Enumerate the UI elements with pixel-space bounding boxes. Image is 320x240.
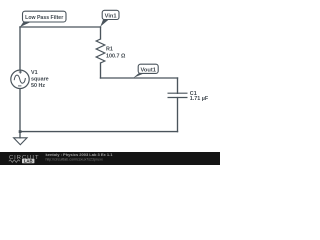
wire left vertical to source [19, 27, 21, 70]
capacitor C1 [168, 93, 188, 97]
watermark bar [0, 152, 220, 165]
label R1 value [106, 46, 126, 59]
wire Vin to resistor top [100, 27, 102, 39]
svg-text:Vin1: Vin1 [105, 13, 117, 19]
svg-text:Low Pass Filter: Low Pass Filter [25, 15, 63, 21]
wire bottom horizontal [20, 131, 178, 133]
ground [14, 138, 27, 145]
wire capacitor bottom lead [177, 98, 179, 132]
svg-text:Vout1: Vout1 [141, 67, 156, 73]
svg-text:1.71 µF: 1.71 µF [190, 96, 209, 102]
wire capacitor top lead [177, 78, 179, 93]
svg-text:R1: R1 [106, 46, 113, 52]
svg-text:V1: V1 [31, 70, 38, 76]
label V1 value [31, 70, 49, 89]
svg-text:100.7 Ω: 100.7 Ω [106, 54, 126, 60]
wire resistor bottom to corner [100, 63, 102, 78]
voltage source V1 [11, 70, 29, 88]
svg-text:50 Hz: 50 Hz [31, 83, 45, 89]
svg-text:LAB: LAB [24, 159, 33, 164]
wire top horizontal [20, 26, 101, 28]
svg-text:square: square [31, 77, 49, 83]
resistor R1 [96, 39, 105, 63]
wire Vout horizontal [101, 77, 178, 79]
svg-text:hllp://circuitlab.com/csxux7s2: hllp://circuitlab.com/csxux7s23pruxx [46, 157, 104, 161]
wire source bottom to ground junction [19, 88, 21, 137]
flag Vout1 [133, 64, 158, 78]
label C1 value [190, 91, 209, 102]
CircuitLab logo [9, 155, 40, 164]
flag Low Pass Filter [20, 11, 66, 27]
flag Vin1 [100, 10, 119, 26]
node junction dot [19, 130, 22, 133]
